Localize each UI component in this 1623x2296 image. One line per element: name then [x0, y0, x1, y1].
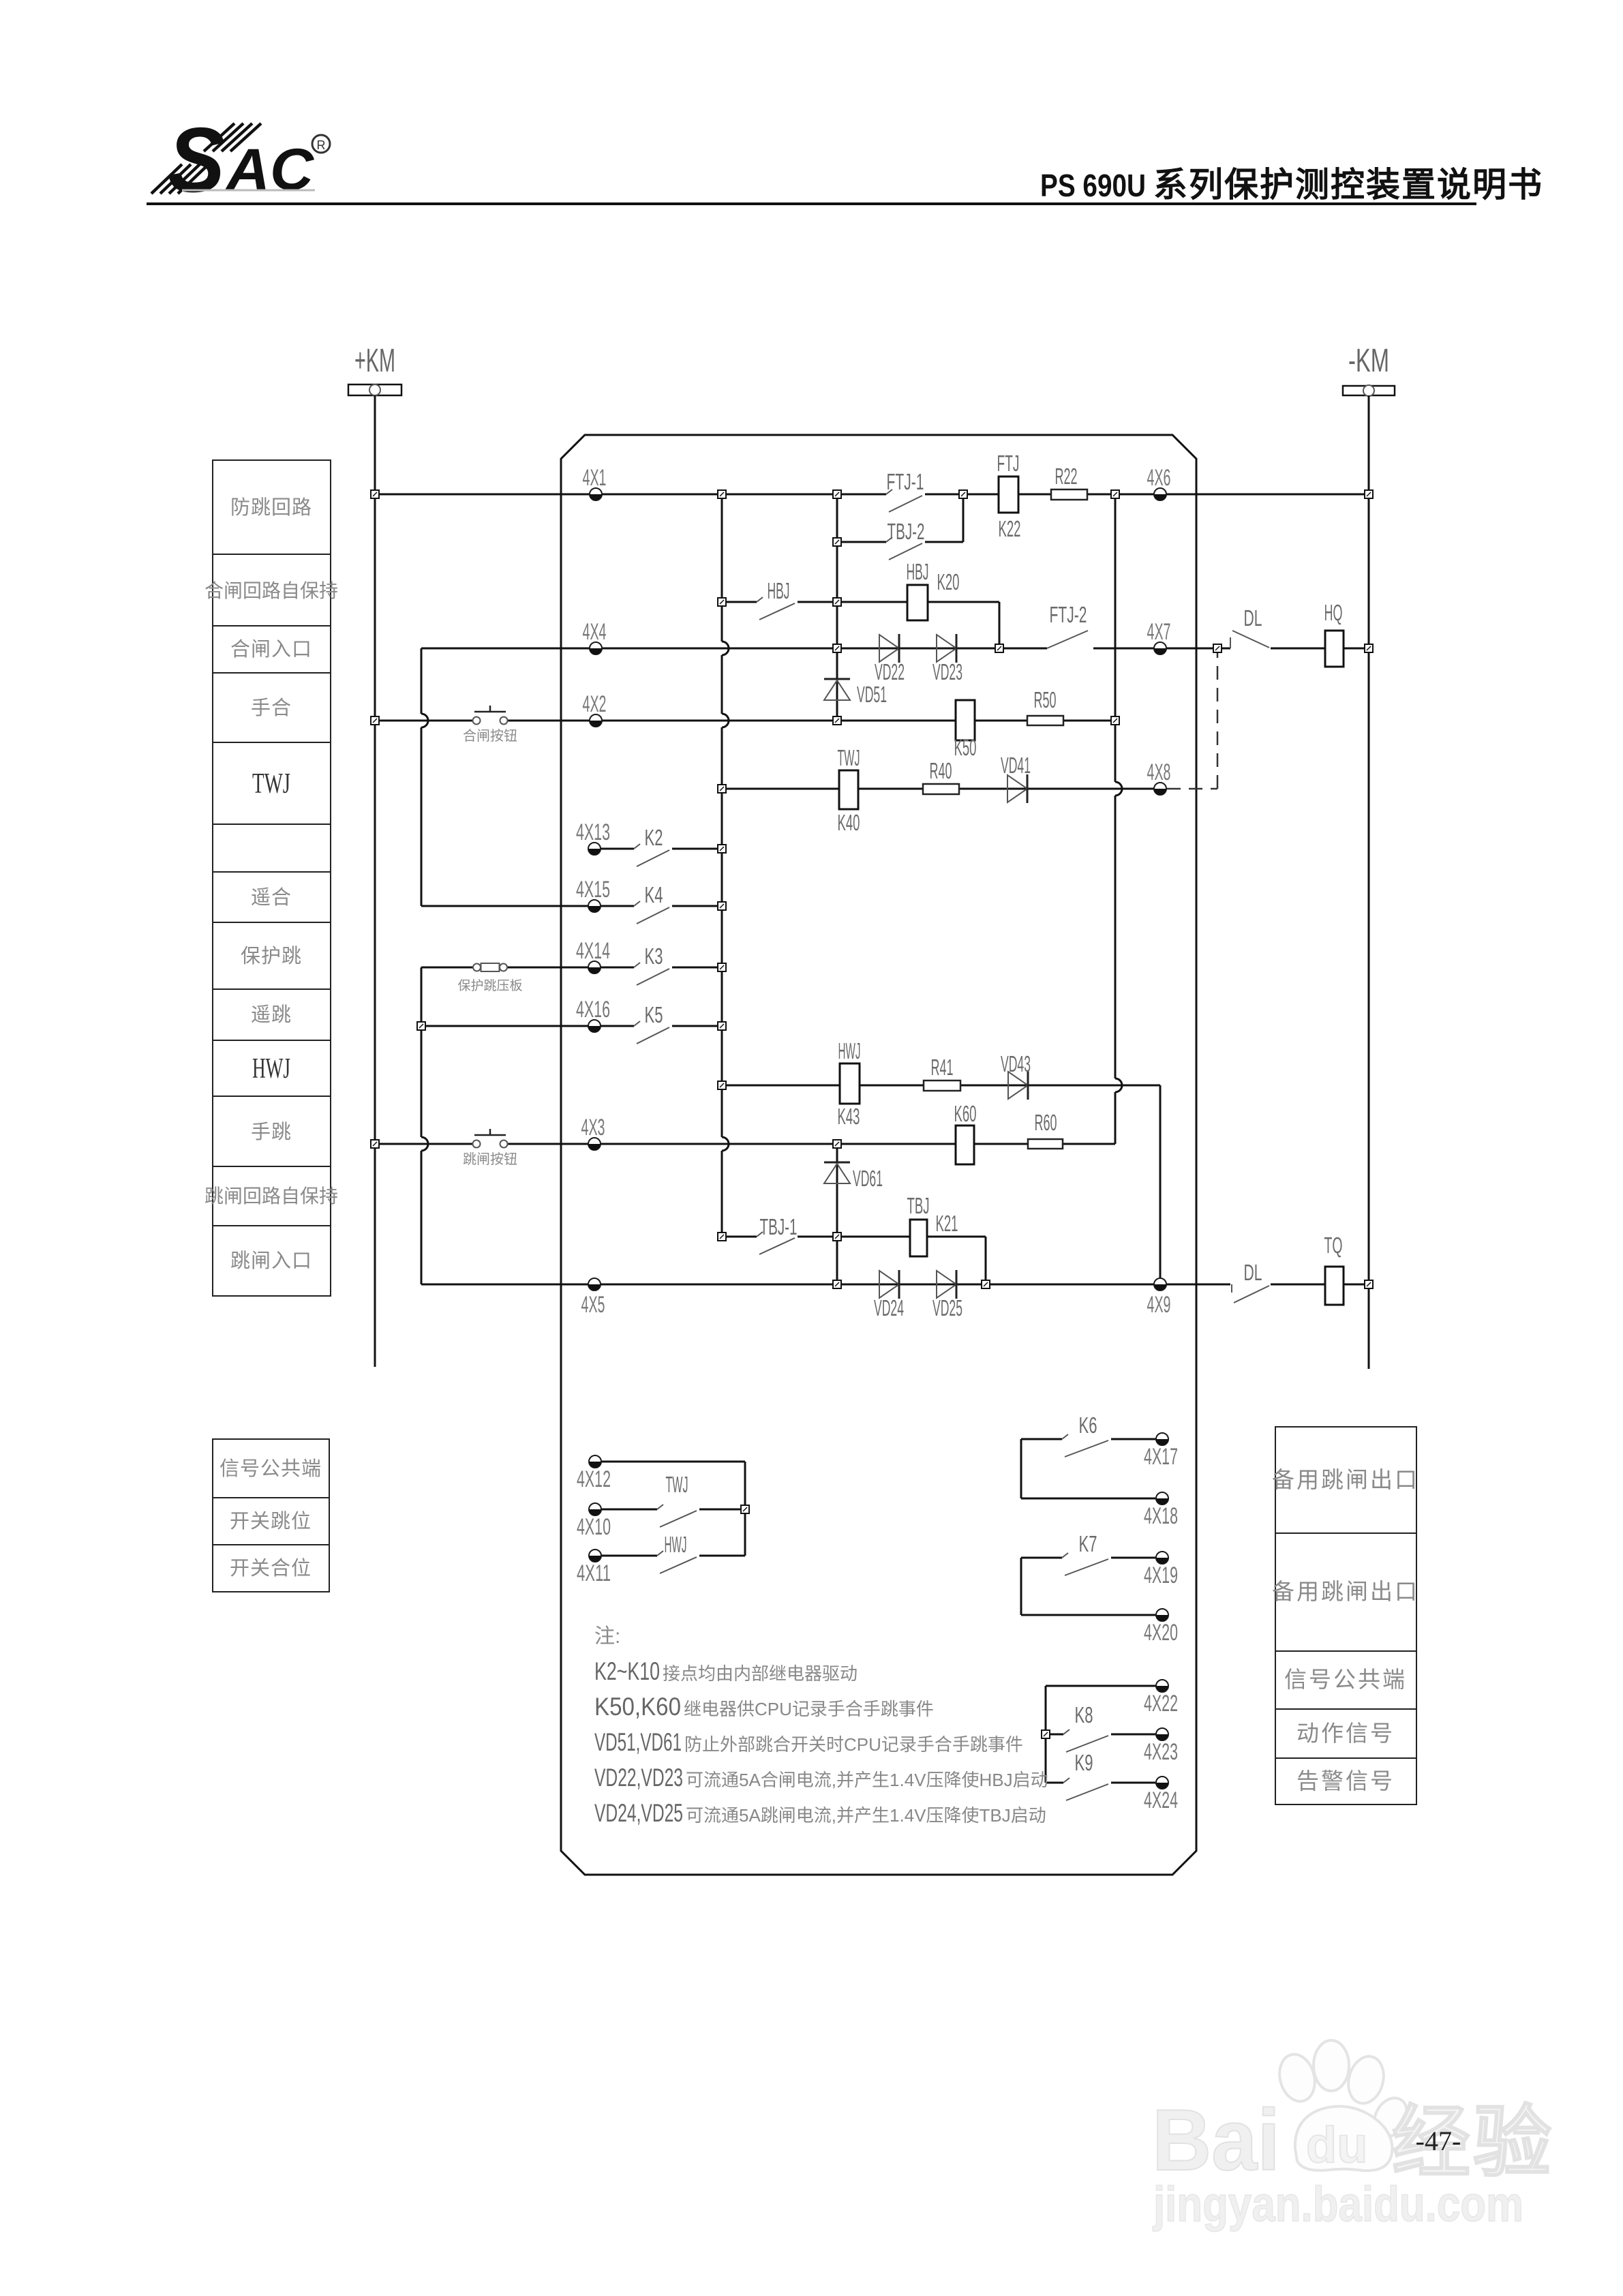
terminal 4X23: [1156, 1728, 1168, 1740]
wire hop at (618,1678): [421, 1137, 428, 1151]
svg-text:AC: AC: [225, 137, 315, 202]
svg-text:-KM: -KM: [1348, 343, 1389, 379]
junction (1228,1678): [833, 1140, 841, 1148]
wire TBJ coil drop: [985, 1237, 987, 1284]
svg-text:合闸入口: 合闸入口: [230, 638, 312, 661]
svg-text:4X4: 4X4: [583, 619, 607, 645]
wire 4X14 row right: [672, 967, 722, 969]
wire HBJ coil drop: [999, 602, 1001, 648]
terminal 4X15: [588, 900, 601, 912]
svg-text:4X2: 4X2: [583, 691, 607, 717]
wire bus x1059 b: [721, 655, 723, 714]
wire 4X3 row left: [375, 1143, 473, 1145]
wire bus x1636 c: [1114, 1092, 1117, 1144]
junction (550,1057): [371, 716, 379, 725]
svg-text:接点均由内部继电器驱动: 接点均由内部继电器驱动: [663, 1663, 858, 1684]
svg-text:VD23: VD23: [932, 659, 962, 684]
wire 4X7 row: [1093, 648, 1230, 650]
junction (1059,1157): [718, 785, 726, 793]
wire 4X20 row: [1021, 1614, 1162, 1616]
wire riser x618 c: [421, 967, 423, 1026]
svg-text:K60: K60: [954, 1101, 977, 1126]
wire 4X11 row left: [595, 1555, 657, 1557]
contact FTJ-1: [886, 489, 922, 512]
svg-text:4X8: 4X8: [1147, 759, 1171, 785]
terminal 4X19: [1156, 1552, 1168, 1564]
junction (1534,2544): [1042, 1730, 1050, 1738]
diode VD22: [879, 634, 899, 663]
svg-text:4X20: 4X20: [1144, 1620, 1178, 1646]
wire 4X23 row left: [1046, 1734, 1063, 1736]
diode VD23: [937, 634, 956, 663]
svg-text:合闸按钮: 合闸按钮: [463, 728, 517, 744]
svg-text:可流通5A跳闸电流,并产生1.4V压降使TBJ启动: 可流通5A跳闸电流,并产生1.4V压降使TBJ启动: [686, 1805, 1046, 1826]
wire 4X24 row right: [1111, 1782, 1162, 1784]
svg-text:R41: R41: [931, 1055, 954, 1080]
wire 4X12 row: [595, 1461, 745, 1463]
svg-text:4X18: 4X18: [1144, 1503, 1178, 1529]
svg-text:开关合位: 开关合位: [230, 1557, 312, 1580]
wire bus x1059 a: [721, 494, 723, 641]
wire 4X16 row left: [421, 1025, 634, 1027]
svg-text:Bai: Bai: [1152, 2091, 1280, 2188]
svg-text:遥跳: 遥跳: [251, 1003, 292, 1026]
wire 4X19 row right: [1111, 1557, 1162, 1559]
svg-text:TWJ: TWJ: [252, 768, 290, 800]
diode VD24: [879, 1270, 899, 1299]
svg-text:K9: K9: [1075, 1750, 1093, 1775]
wire 4X10 row right: [699, 1509, 745, 1511]
junction (2008,1884): [1365, 1280, 1373, 1288]
device enclosure box: [561, 435, 1196, 1875]
svg-text:4X10: 4X10: [577, 1514, 611, 1540]
svg-text:跳闸入口: 跳闸入口: [230, 1250, 312, 1272]
svg-text:K2~K10: K2~K10: [594, 1657, 660, 1685]
contact K9: [1063, 1778, 1108, 1800]
svg-text:TBJ-2: TBJ-2: [888, 519, 925, 544]
junction (1228,951): [833, 644, 841, 652]
contact HWJ: [657, 1551, 697, 1573]
wire TBJ-2 branch left: [837, 541, 886, 543]
svg-text:FTJ-2: FTJ-2: [1050, 602, 1087, 627]
svg-text:信号公共端: 信号公共端: [219, 1457, 322, 1480]
junction (1636,725): [1111, 490, 1119, 498]
diode VD25: [937, 1270, 956, 1299]
svg-text:K50: K50: [954, 735, 977, 760]
wire bus x1228 lower: [836, 1144, 838, 1284]
svg-text:4X23: 4X23: [1144, 1739, 1178, 1765]
junction (1059,725): [718, 490, 726, 498]
terminal 4X10: [589, 1503, 601, 1515]
svg-text:HWJ: HWJ: [838, 1038, 861, 1063]
svg-text:FTJ: FTJ: [997, 451, 1020, 476]
svg-text:VD51,VD61: VD51,VD61: [594, 1728, 682, 1756]
wire 4X13 row left: [594, 848, 634, 850]
terminal 4X2: [590, 714, 602, 727]
svg-text:R60: R60: [1035, 1110, 1057, 1135]
terminal 4X4: [590, 642, 602, 654]
resistor R40: [923, 784, 959, 794]
wire K6 bracket riser: [1020, 1439, 1022, 1498]
svg-text:4X7: 4X7: [1147, 619, 1171, 645]
wire K8/K9 bracket riser: [1045, 1686, 1047, 1783]
svg-text:4X17: 4X17: [1144, 1444, 1178, 1470]
wire TBJ-1 row left: [722, 1236, 757, 1238]
contact FTJ-2: [1047, 631, 1088, 648]
svg-text:4X19: 4X19: [1144, 1562, 1178, 1588]
terminal 4X13: [588, 843, 601, 855]
svg-text:S: S: [168, 108, 225, 211]
wire hop at (618,1057): [421, 714, 428, 727]
junction (1228,795): [833, 538, 841, 546]
svg-text:防止外部跳合开关时CPU记录手合手跳事件: 防止外部跳合开关时CPU记录手合手跳事件: [684, 1734, 1023, 1755]
relay coil K50: [956, 700, 975, 740]
junction (1636,1057): [1111, 716, 1119, 725]
contact K4: [634, 901, 669, 924]
svg-text:保护跳: 保护跳: [241, 945, 302, 967]
wire bus x1059 c: [721, 727, 723, 1137]
svg-text:4X15: 4X15: [576, 877, 610, 903]
junction (2008,951): [1365, 644, 1373, 652]
svg-text:告警信号: 告警信号: [1296, 1768, 1395, 1794]
svg-text:TWJ: TWJ: [666, 1472, 688, 1497]
diode VD51: [824, 679, 850, 700]
relay coil HBJ (K20): [907, 585, 928, 620]
contact K5: [634, 1021, 669, 1044]
svg-text:R40: R40: [930, 758, 952, 783]
junction (1413,725): [959, 490, 967, 498]
contact K7: [1062, 1553, 1108, 1575]
svg-text:HQ: HQ: [1324, 600, 1343, 625]
diode VD61: [824, 1162, 850, 1183]
resistor R50: [1027, 716, 1063, 725]
header rule: [147, 202, 1476, 205]
wire 4X1 row left: [375, 494, 886, 496]
relay coil TWJ (K40): [839, 770, 858, 809]
wire 4X13 row right: [672, 848, 722, 850]
svg-text:继电器供CPU记录手合手跳事件: 继电器供CPU记录手合手跳事件: [684, 1699, 934, 1719]
svg-text:-47-: -47-: [1416, 2126, 1461, 2156]
wire 4X2 row left: [375, 720, 473, 722]
svg-text:K21: K21: [936, 1211, 958, 1236]
pushbutton 合闸按钮: [473, 706, 508, 725]
svg-text:4X24: 4X24: [1144, 1787, 1178, 1813]
wire 4X8 row: [722, 788, 1160, 790]
wire hop at (1059,1057): [722, 714, 729, 727]
svg-text:4X22: 4X22: [1144, 1691, 1178, 1717]
wire 4X24 row left: [1046, 1782, 1063, 1784]
svg-text:4X13: 4X13: [576, 819, 610, 845]
svg-text:遥合: 遥合: [251, 886, 292, 909]
svg-text:4X16: 4X16: [576, 997, 610, 1023]
resistor R60: [1028, 1139, 1063, 1149]
junction (1059,1245): [718, 845, 726, 853]
svg-text:保护跳压板: 保护跳压板: [457, 978, 522, 993]
svg-text:K40: K40: [838, 810, 860, 835]
svg-text:手跳: 手跳: [251, 1121, 292, 1143]
svg-text:4X1: 4X1: [583, 465, 607, 491]
svg-text:HWJ: HWJ: [252, 1053, 290, 1085]
terminal 4X8: [1154, 783, 1166, 795]
svg-text:VD43: VD43: [1001, 1051, 1031, 1076]
diode VD41: [1007, 774, 1027, 803]
wire TBJ-2 riser: [962, 494, 965, 542]
svg-text:VD22,VD23: VD22,VD23: [594, 1764, 683, 1792]
contact DL closing: [1230, 631, 1269, 648]
terminal 4X5: [588, 1278, 601, 1290]
relay coil FTJ (K22): [999, 477, 1018, 513]
svg-text:+KM: +KM: [354, 343, 395, 379]
junction (550,1678): [371, 1140, 379, 1148]
svg-text:HBJ: HBJ: [768, 578, 790, 603]
svg-text:K6: K6: [1079, 1413, 1097, 1438]
svg-text:TBJ-1: TBJ-1: [760, 1214, 798, 1239]
junction (1786,951): [1213, 644, 1222, 652]
junction (1059,1592): [718, 1081, 726, 1089]
svg-text:K4: K4: [645, 882, 663, 907]
terminal 4X20: [1156, 1609, 1168, 1621]
svg-text:注:: 注:: [594, 1625, 620, 1648]
wire 4X5/4X9 row: [421, 1284, 1230, 1286]
terminal 4X12: [589, 1455, 601, 1468]
wire TQ row: [1271, 1284, 1369, 1286]
svg-text:可流通5A合闸电流,并产生1.4V压降使HBJ启动: 可流通5A合闸电流,并产生1.4V压降使HBJ启动: [686, 1770, 1048, 1790]
wire hop at (1636,1592): [1115, 1078, 1122, 1092]
wire K7 bracket riser: [1020, 1558, 1022, 1615]
svg-text:du: du: [1306, 2117, 1367, 2173]
terminal 4X16: [588, 1020, 601, 1032]
wire 4X17 row right: [1111, 1438, 1162, 1440]
wire HWJ row: [722, 1085, 1160, 1087]
terminal 4X3: [588, 1138, 601, 1150]
tripping coil TQ: [1325, 1267, 1344, 1305]
relay coil K60: [956, 1126, 974, 1164]
closing coil HQ: [1325, 631, 1344, 667]
junction (1446,1884): [982, 1280, 990, 1288]
svg-text:R: R: [317, 138, 326, 152]
wire 4X17 row left: [1021, 1438, 1062, 1440]
terminal 4X17: [1156, 1433, 1168, 1445]
wire hop at (1059,951): [722, 641, 729, 655]
terminal 4X18: [1156, 1492, 1168, 1505]
svg-text:VD22: VD22: [875, 659, 905, 684]
svg-text:TWJ: TWJ: [838, 745, 860, 770]
wire DL linkage dashed: [1167, 788, 1217, 790]
wire riser x618 d: [421, 1026, 423, 1137]
svg-text:防跳回路: 防跳回路: [230, 496, 312, 519]
wire HQ row: [1271, 648, 1369, 650]
svg-text:VD25: VD25: [932, 1295, 962, 1320]
contact K2: [634, 844, 669, 866]
svg-text:R50: R50: [1034, 687, 1057, 712]
junction (1093,2214): [741, 1505, 749, 1513]
svg-text:VD24,VD25: VD24,VD25: [594, 1799, 683, 1827]
wire 4X2 row right: [508, 720, 1115, 722]
svg-text:4X11: 4X11: [577, 1560, 611, 1586]
junction (1059,1814): [718, 1233, 726, 1241]
svg-text:K5: K5: [645, 1002, 663, 1027]
junction (1228,725): [833, 490, 841, 498]
wire drop to 4X9: [1159, 1085, 1162, 1284]
contact DL tripping: [1232, 1284, 1269, 1303]
resistor R22: [1051, 489, 1087, 500]
terminal 4X6: [1154, 488, 1166, 500]
junction (1059,1505): [718, 1022, 726, 1030]
junction (1466,951): [995, 644, 1003, 652]
link plate 保护跳压板: [473, 963, 507, 971]
svg-text:合闸回路自保持: 合闸回路自保持: [204, 580, 338, 601]
junction (1228,1057): [833, 716, 841, 725]
junction (618,1505): [417, 1022, 425, 1030]
svg-text:TQ: TQ: [1324, 1233, 1343, 1258]
terminal 4X11: [589, 1550, 601, 1562]
svg-text:VD51: VD51: [857, 682, 887, 707]
wire riser x618 a: [421, 648, 423, 714]
svg-text:HWJ: HWJ: [665, 1532, 687, 1557]
wire 4X1 row right: [925, 494, 1369, 496]
svg-text:系列保护测控装置说明书: 系列保护测控装置说明书: [1153, 166, 1543, 204]
svg-text:K20: K20: [937, 569, 960, 594]
contact K8: [1063, 1729, 1108, 1752]
wire bus x1636 a: [1114, 494, 1117, 782]
svg-text:TBJ: TBJ: [907, 1193, 930, 1218]
terminal 4X1: [590, 488, 602, 500]
pushbutton 跳闸按钮: [473, 1129, 508, 1148]
wire 4X15 row left: [421, 905, 634, 907]
terminal 4X24: [1156, 1777, 1168, 1789]
terminal 4X9: [1154, 1278, 1166, 1290]
relay coil TBJ (K21): [910, 1220, 927, 1256]
wire hop at (1059,1678): [722, 1137, 729, 1151]
svg-text:jingyan.baidu.com: jingyan.baidu.com: [1152, 2177, 1523, 2232]
contact HBJ: [757, 597, 795, 620]
junction (1059,1329): [718, 902, 726, 910]
wire 4X23 row right: [1111, 1734, 1162, 1736]
wire 4X22 row: [1046, 1685, 1162, 1687]
wire -KM bus: [1368, 395, 1370, 1369]
svg-text:4X3: 4X3: [581, 1115, 605, 1141]
svg-text:4X9: 4X9: [1147, 1292, 1171, 1318]
svg-text:K2: K2: [645, 825, 663, 850]
junction (1228,883): [833, 598, 841, 606]
junction (1059,1419): [718, 963, 726, 971]
wire HBJ branch right: [798, 601, 999, 603]
contact TBJ-1: [757, 1232, 795, 1254]
svg-text:DL: DL: [1244, 605, 1262, 631]
svg-text:4X5: 4X5: [581, 1292, 605, 1318]
svg-text:手合: 手合: [251, 697, 292, 719]
left label column frame: [213, 460, 331, 1296]
junction (1059,883): [718, 598, 726, 606]
wire hop at (1636,1157): [1115, 782, 1122, 796]
wire 4X3 row right: [508, 1143, 1115, 1145]
wire TWJ/HWJ common riser: [744, 1462, 746, 1556]
svg-text:备用跳闸出口: 备用跳闸出口: [1272, 1467, 1419, 1492]
svg-text:4X6: 4X6: [1147, 465, 1171, 491]
svg-text:K22: K22: [999, 516, 1021, 541]
svg-text:4X12: 4X12: [577, 1466, 611, 1492]
svg-text:信号公共端: 信号公共端: [1284, 1667, 1407, 1692]
wire 4X4 row: [421, 648, 1047, 650]
svg-text:PS 690U: PS 690U: [1040, 168, 1146, 203]
junction (1228,1814): [833, 1233, 841, 1241]
svg-text:备用跳闸出口: 备用跳闸出口: [1272, 1579, 1419, 1604]
svg-text:K50,K60: K50,K60: [594, 1693, 681, 1721]
right label column frame: [1275, 1427, 1416, 1804]
terminal 4X22: [1156, 1680, 1168, 1692]
contact K6: [1062, 1434, 1108, 1457]
svg-text:FTJ-1: FTJ-1: [887, 469, 924, 494]
svg-text:DL: DL: [1244, 1260, 1262, 1285]
svg-text:VD24: VD24: [874, 1295, 904, 1320]
wire riser x618 b: [421, 727, 423, 906]
diode VD43: [1008, 1071, 1028, 1100]
contact TWJ: [657, 1505, 697, 1527]
svg-text:K3: K3: [645, 943, 663, 969]
junction (2008,725): [1365, 490, 1373, 498]
contact K3: [634, 963, 669, 985]
watermark Baidu Jingyan: [1152, 2040, 1554, 2232]
left signal column frame: [213, 1439, 329, 1592]
wire 4X14 row left: [421, 967, 634, 969]
svg-text:跳闸按钮: 跳闸按钮: [463, 1151, 517, 1167]
contact TBJ-2: [886, 537, 922, 560]
svg-text:K43: K43: [838, 1104, 860, 1129]
svg-text:动作信号: 动作信号: [1296, 1721, 1395, 1746]
svg-text:4X14: 4X14: [576, 938, 610, 964]
junction (1228,1884): [833, 1280, 841, 1288]
wire bus x1059 d: [721, 1151, 723, 1237]
wire 4X16 row right: [672, 1025, 722, 1027]
relay coil HWJ (K43): [840, 1063, 860, 1104]
wire TBJ-2 branch right: [925, 541, 963, 543]
svg-text:R22: R22: [1055, 464, 1078, 489]
wire 4X19 row left: [1021, 1557, 1062, 1559]
wire 4X10 row left: [595, 1509, 657, 1511]
svg-text:K8: K8: [1075, 1702, 1093, 1727]
svg-text:VD41: VD41: [1001, 753, 1031, 778]
svg-text:跳闸回路自保持: 跳闸回路自保持: [204, 1185, 338, 1207]
svg-text:VD61: VD61: [853, 1166, 883, 1191]
wire bus x1636 b: [1114, 796, 1117, 1078]
wire 4X15 row right: [672, 905, 722, 907]
terminal 4X7: [1154, 642, 1166, 654]
junction (550,725): [371, 490, 379, 498]
wire riser x618 e: [421, 1151, 423, 1284]
resistor R41: [924, 1081, 960, 1091]
wire 4X11 row right: [699, 1555, 745, 1557]
svg-text:K7: K7: [1079, 1531, 1097, 1556]
svg-text:开关跳位: 开关跳位: [230, 1510, 312, 1532]
SAC logo: [151, 108, 330, 211]
wire HBJ branch left: [722, 601, 757, 603]
wire bus x1228 upper: [836, 494, 838, 721]
wire +KM bus: [374, 395, 376, 1367]
terminal 4X14: [588, 961, 601, 973]
wire 4X18 row: [1021, 1498, 1162, 1500]
svg-text:HBJ: HBJ: [907, 559, 929, 584]
wire TBJ-1 row right: [798, 1236, 986, 1238]
